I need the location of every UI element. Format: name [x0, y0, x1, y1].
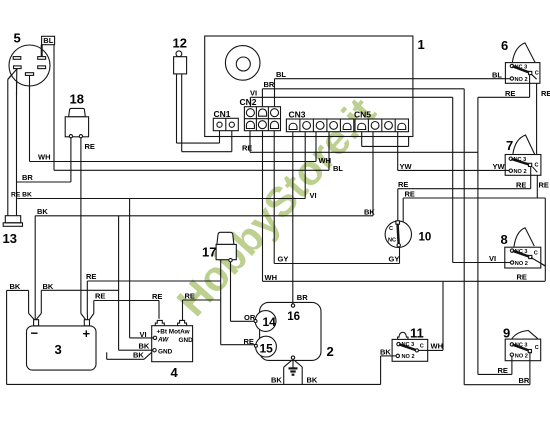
svg-text:WH: WH — [319, 156, 332, 165]
svg-text:C: C — [420, 344, 424, 350]
svg-text:YW: YW — [493, 162, 506, 171]
svg-text:RE: RE — [244, 337, 254, 346]
svg-text:NC: NC — [388, 238, 396, 244]
svg-text:NC 3: NC 3 — [402, 342, 415, 348]
svg-text:BK: BK — [10, 282, 21, 291]
svg-text:GY: GY — [278, 255, 289, 264]
svg-text:VI: VI — [250, 88, 257, 97]
svg-text:BK: BK — [271, 376, 282, 385]
svg-text:RE: RE — [85, 142, 95, 151]
svg-text:NO 2: NO 2 — [515, 353, 528, 359]
svg-text:CN3: CN3 — [289, 110, 306, 120]
svg-text:C: C — [535, 345, 539, 351]
svg-text:VI: VI — [489, 254, 496, 263]
svg-text:1: 1 — [418, 37, 425, 52]
svg-text:BR: BR — [22, 173, 33, 182]
svg-text:16: 16 — [287, 311, 300, 323]
svg-text:C: C — [535, 71, 539, 77]
svg-text:BK: BK — [380, 347, 391, 356]
svg-text:15: 15 — [260, 341, 274, 355]
svg-text:NC 3: NC 3 — [515, 64, 528, 70]
svg-text:WH: WH — [38, 153, 51, 162]
svg-text:GND: GND — [158, 349, 173, 356]
svg-text:NC 3: NC 3 — [515, 343, 528, 349]
svg-text:RE: RE — [498, 366, 508, 375]
svg-text:5: 5 — [14, 31, 21, 46]
svg-text:VI: VI — [310, 191, 317, 200]
svg-text:13: 13 — [3, 231, 17, 246]
svg-text:RE: RE — [405, 190, 415, 199]
svg-text:BR: BR — [297, 293, 308, 302]
svg-text:NO 2: NO 2 — [515, 261, 528, 267]
svg-text:BL: BL — [276, 70, 286, 79]
svg-text:RE: RE — [185, 292, 195, 301]
svg-text:RE BK: RE BK — [11, 192, 32, 199]
svg-text:BL: BL — [333, 164, 343, 173]
svg-text:BK: BK — [364, 207, 375, 216]
svg-text:11: 11 — [410, 326, 424, 341]
svg-text:BR: BR — [519, 376, 530, 385]
svg-text:OR: OR — [244, 313, 256, 322]
svg-text:+: + — [83, 326, 91, 341]
svg-text:C: C — [534, 251, 538, 257]
svg-text:C: C — [535, 162, 539, 168]
svg-text:AW: AW — [157, 336, 169, 343]
svg-text:VI: VI — [140, 330, 147, 339]
svg-text:14: 14 — [263, 315, 277, 329]
svg-text:GY: GY — [389, 255, 400, 264]
svg-text:BK: BK — [43, 282, 54, 291]
svg-text:3: 3 — [55, 342, 62, 357]
svg-text:NC 3: NC 3 — [514, 157, 527, 163]
svg-text:CN2: CN2 — [240, 97, 257, 107]
svg-text:BK: BK — [307, 376, 318, 385]
svg-text:WH: WH — [431, 342, 444, 351]
svg-text:C: C — [389, 226, 393, 232]
svg-text:RE: RE — [95, 292, 105, 301]
svg-text:RE: RE — [242, 143, 252, 152]
svg-text:2: 2 — [327, 344, 334, 359]
svg-text:RE: RE — [86, 272, 96, 281]
svg-text:8: 8 — [501, 232, 508, 247]
svg-text:RE: RE — [539, 180, 549, 189]
svg-text:GND: GND — [179, 337, 194, 344]
svg-text:BK: BK — [133, 351, 144, 360]
svg-text:NO 2: NO 2 — [402, 354, 415, 360]
svg-text:9: 9 — [503, 326, 510, 341]
svg-text:+Bt MotAw: +Bt MotAw — [157, 328, 190, 335]
svg-text:10: 10 — [419, 232, 432, 244]
svg-text:RE: RE — [516, 180, 526, 189]
svg-text:CN1: CN1 — [214, 109, 231, 119]
svg-text:18: 18 — [70, 92, 84, 107]
svg-text:BL: BL — [43, 36, 53, 45]
svg-text:BK: BK — [37, 207, 48, 216]
svg-text:WH: WH — [265, 273, 278, 282]
svg-text:BL: BL — [492, 71, 502, 80]
svg-text:4: 4 — [171, 365, 179, 380]
svg-text:YW: YW — [400, 162, 413, 171]
svg-text:BR: BR — [264, 80, 275, 89]
svg-text:−: − — [31, 326, 39, 341]
svg-text:6: 6 — [501, 38, 508, 53]
svg-text:17: 17 — [202, 245, 216, 260]
svg-text:RE: RE — [152, 292, 162, 301]
svg-text:BK: BK — [139, 341, 150, 350]
svg-text:CN5: CN5 — [354, 110, 371, 120]
svg-text:NO 2: NO 2 — [515, 77, 528, 83]
svg-text:NC 3: NC 3 — [515, 249, 528, 255]
svg-text:RE: RE — [541, 89, 550, 98]
svg-text:7: 7 — [506, 138, 513, 153]
svg-text:NO 2: NO 2 — [514, 169, 527, 175]
svg-text:RE: RE — [398, 180, 408, 189]
svg-text:RE: RE — [517, 273, 527, 282]
svg-text:RE: RE — [505, 89, 515, 98]
svg-text:12: 12 — [173, 36, 187, 51]
